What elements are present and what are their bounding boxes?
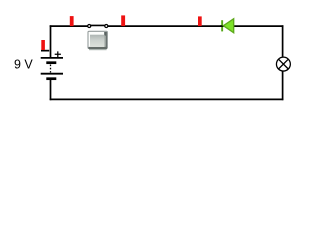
battery B1 positive plate (top cell): [41, 57, 63, 59]
current marker beside battery (red bar): [41, 40, 45, 50]
current marker on wire right of switch: [121, 15, 125, 26]
battery B1 positive plate (bottom cell): [41, 73, 63, 75]
battery B1 negative plate (top cell): [46, 61, 56, 64]
switch SW1 closed lever bar: [89, 24, 106, 26]
battery B1 dotted cell continuation: [50, 65, 52, 73]
LED D1 lead crossing cathode bar: [220, 25, 224, 27]
switch SW1 left terminal: [88, 24, 91, 27]
wire left vertical from top corner to battery positive: [50, 25, 52, 57]
switch SW1 right terminal: [105, 24, 108, 27]
switch SW1 push button body: [88, 31, 108, 50]
wire right vertical from top corner to lamp: [282, 25, 284, 57]
battery B1 value label 9 V: [14, 58, 33, 72]
wire bottom segment: [50, 98, 284, 100]
current marker on wire left of LED: [198, 16, 202, 26]
lamp L1 bulb circle: [276, 57, 290, 71]
svg-text:9 V: 9 V: [14, 58, 33, 72]
wire right vertical from lamp to bottom corner: [282, 72, 284, 101]
battery B1 negative plate (bottom cell): [46, 77, 56, 80]
LED D1 anode triangle: [223, 19, 233, 33]
lamp L1 cross: [279, 59, 289, 69]
wire battery negative lead down to bottom wire: [50, 79, 52, 100]
wire top segment from LED to right corner: [234, 25, 283, 27]
switch SW1 push button face: [90, 35, 105, 47]
current marker beside battery (black base): [41, 50, 49, 52]
LED D1 cathode bar: [221, 20, 223, 31]
wire top segment from left corner to switch: [50, 25, 88, 27]
battery B1 polarity plus sign: [55, 51, 61, 57]
wire top segment from switch to LED: [108, 25, 222, 27]
current marker on wire left of switch: [70, 16, 74, 26]
